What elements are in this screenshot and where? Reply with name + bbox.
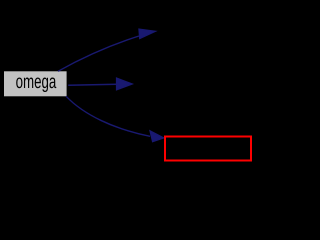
edge omega -> top node (wire) <box>58 36 139 71</box>
arrowhead middle <box>116 78 132 90</box>
node omega (grey filled box) <box>4 71 67 96</box>
edge omega -> middle node (wire) <box>68 84 117 85</box>
node truncated (red outlined box) <box>165 137 251 161</box>
arrowhead top <box>139 29 156 39</box>
arrowhead bottom <box>150 131 164 142</box>
edge omega -> bottom node (wire) <box>66 96 150 136</box>
dependency graph canvas <box>0 0 307 168</box>
